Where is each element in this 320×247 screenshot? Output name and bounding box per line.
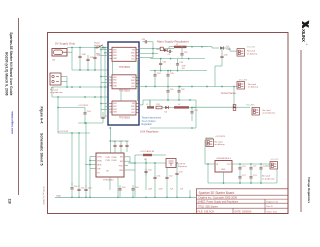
label LM1086	[217, 158, 232, 160]
svg-text:+VCC3V3: +VCC3V3	[78, 105, 89, 107]
svg-text:No Load: No Load	[248, 84, 257, 86]
svg-text:118: 118	[8, 199, 12, 204]
svg-text:on delivery: on delivery	[248, 86, 259, 89]
capacitor C46	[113, 141, 118, 153]
svg-text:+VCC3V3: +VCC3V3	[215, 136, 226, 138]
svg-text:PVIN: PVIN	[97, 160, 102, 162]
wire lm out	[232, 163, 270, 165]
capacitor C35	[166, 70, 174, 87]
svg-text:+VCC1V8: +VCC1V8	[58, 131, 69, 133]
svg-text:VCC-1V2: VCC-1V2	[271, 159, 279, 161]
svg-text:RUN: RUN	[97, 164, 102, 166]
svg-text:PGD: PGD	[119, 166, 124, 168]
net label +VCC3V3 right	[205, 136, 226, 138]
connector JT2	[237, 82, 245, 90]
svg-text:J20: J20	[52, 60, 55, 62]
svg-text:Supercap: Supercap	[178, 165, 188, 168]
svg-text:C9: C9	[168, 54, 170, 56]
capacitor C71	[249, 165, 257, 183]
label no-load JT1	[247, 51, 258, 56]
wire lm gnd	[223, 172, 225, 183]
wire sense row	[191, 106, 233, 108]
svg-text:EN1: EN1	[113, 49, 117, 51]
capacitor C34	[153, 70, 161, 87]
svg-text:TPS75003: TPS75003	[119, 117, 131, 119]
capacitor C45	[101, 112, 109, 123]
svg-text:D4: D4	[165, 112, 167, 114]
margin note (rotated tiny text)	[42, 186, 44, 205]
svg-text:PVIN: PVIN	[106, 160, 111, 162]
net label VREF	[246, 104, 255, 107]
capacitor C32	[159, 59, 167, 71]
svg-text:Figure A-4:: Figure A-4:	[40, 107, 44, 125]
svg-text:SW2: SW2	[131, 106, 135, 108]
wire L1 row	[153, 46, 207, 49]
figure caption: Figure A-4 (rotated)	[40, 107, 44, 125]
wire stub	[71, 53, 73, 71]
wire aux right drop	[150, 100, 196, 129]
footer link www.xilinx.com (rotated)	[10, 111, 14, 135]
capacitor C48	[109, 140, 129, 152]
regulator IC1 TPS75003	[110, 47, 139, 69]
inductor L1	[174, 44, 187, 48]
svg-text:XILINX: XILINX	[301, 29, 306, 42]
diode D5	[163, 49, 167, 52]
wire u8 to supercap	[130, 162, 135, 164]
svg-text:Spartan-3E Starter Kit Board U: Spartan-3E Starter Kit Board User Guide	[9, 32, 13, 95]
label noload left	[50, 89, 63, 94]
capacitor C40	[93, 48, 101, 62]
capacitor C62	[84, 185, 92, 197]
svg-text:VCC-3V3: VCC-3V3	[239, 79, 247, 81]
footer text: document title (rotated)	[9, 32, 13, 95]
svg-text:FB2: FB2	[132, 109, 135, 111]
capacitor C9 horizontal	[167, 50, 172, 56]
net label VCC-AUX	[140, 150, 154, 153]
footer rule (rotated)	[18, 18, 20, 195]
svg-text:EN1: EN1	[113, 103, 117, 105]
capacitor C33	[176, 59, 184, 71]
title block	[196, 189, 288, 214]
wire u8 bottom	[110, 177, 118, 197]
regulator IC3 TPS75003	[110, 101, 139, 119]
wire left feeder	[52, 87, 108, 98]
wire stub jack	[67, 48, 72, 53]
wire IC1 to IC2	[112, 61, 114, 75]
svg-text:LM1086CM-3.3: LM1086CM-3.3	[217, 158, 232, 160]
svg-text:L1: L1	[176, 44, 178, 46]
capacitor value labels gnd row	[148, 189, 184, 191]
figure caption: Schematic Sheet 5 (rotated)	[40, 133, 44, 166]
switch SW1	[95, 45, 105, 56]
svg-text:AUX Regulators: AUX Regulators	[140, 130, 159, 134]
svg-text:TITLE: S3E Starter: TITLE: S3E Starter	[198, 205, 218, 208]
svg-text:VCC-AUX: VCC-AUX	[246, 104, 255, 107]
svg-text:on production: on production	[263, 112, 276, 115]
svg-text:SW1: SW1	[113, 86, 117, 88]
svg-text:No Load: No Load	[263, 110, 272, 112]
svg-text:No Load: No Load	[262, 176, 271, 178]
chapter title: Voltage Regulators (rotated)	[307, 177, 311, 204]
svg-text:SW: SW	[120, 161, 123, 163]
wire drop to C60	[71, 133, 73, 185]
power jack J20	[52, 49, 67, 57]
resistor R20	[156, 47, 163, 51]
svg-text:L2: L2	[146, 104, 148, 106]
svg-text:LDO: LDO	[131, 112, 135, 114]
diode D2	[220, 46, 231, 51]
label GND	[56, 196, 61, 198]
wire aux stub left	[147, 100, 150, 108]
svg-text:FB2: FB2	[132, 56, 135, 58]
wire IC2 to IC3	[120, 88, 122, 101]
capacitor C72	[259, 165, 267, 183]
wire drops to gnd	[135, 184, 191, 198]
capacitor C53	[175, 162, 183, 190]
svg-text:R21: R21	[157, 104, 160, 106]
regulator IC U9 LM1086	[215, 161, 232, 173]
svg-text:UG230 (v1.0) March 9, 2006: UG230 (v1.0) March 9, 2006	[4, 52, 8, 96]
annotation text Texas Instruments	[142, 117, 162, 126]
svg-text:5V Supply Only: 5V Supply Only	[55, 41, 75, 45]
supercap box J30	[166, 159, 176, 168]
wire aux top rail	[150, 99, 196, 101]
svg-text:on production: on production	[50, 91, 63, 94]
svg-text:C30: C30	[142, 39, 145, 41]
svg-text:No Load: No Load	[215, 142, 224, 144]
page number 118 (rotated)	[8, 199, 12, 204]
wire drop to C62	[85, 122, 87, 187]
label 5V Supply Only	[55, 41, 75, 45]
wire c30 link	[151, 42, 153, 58]
label c33 values	[182, 66, 187, 71]
capacitor C74	[249, 174, 257, 180]
wire aux drop	[149, 100, 151, 108]
wire battery to rail	[52, 77, 108, 88]
annotation rectangle (navy) around regulators	[108, 42, 139, 125]
battery connector JP1	[50, 73, 61, 90]
wire feed into U8 top	[109, 127, 111, 153]
net label JT4	[271, 159, 279, 161]
wire mid rail 70	[150, 70, 207, 72]
svg-text:Digilent Inc. Copyright 2005-: Digilent Inc. Copyright 2005-2006	[199, 195, 238, 199]
svg-text:SW2: SW2	[131, 53, 135, 55]
svg-text:Power: Power	[94, 42, 100, 45]
wire GND rail	[55, 196, 196, 198]
wire ic3 to aux	[139, 100, 151, 105]
connector JT4 output	[270, 162, 278, 170]
wire to JT1	[224, 48, 238, 51]
capacitor C43	[190, 107, 198, 121]
capacitor C38	[78, 48, 86, 61]
svg-text:SW: SW	[120, 157, 123, 159]
svg-text:SVIN: SVIN	[97, 156, 102, 158]
capacitor C51	[153, 163, 161, 190]
svg-text:SHEET: Power Supply and Regula: SHEET: Power Supply and Regulators	[198, 201, 239, 204]
label Current Sense	[221, 92, 237, 95]
net label +VCC1V8	[58, 131, 90, 134]
svg-text:Voltage Regulators: Voltage Regulators	[307, 177, 311, 204]
junction sense	[233, 106, 235, 108]
capacitor C50	[144, 169, 152, 175]
regulator IC U8 LTC3412	[96, 153, 124, 181]
svg-text:+VCC-AUX-IN: +VCC-AUX-IN	[140, 150, 154, 153]
connector JT1	[237, 49, 245, 57]
Xilinx logo (rotated)	[301, 20, 309, 45]
wire u8 left pins	[85, 157, 96, 199]
svg-text:Spartan 3E Starter Board: Spartan 3E Starter Board	[199, 191, 235, 195]
svg-text:EN3: EN3	[113, 83, 117, 85]
capacitor C70	[238, 165, 246, 183]
wire inner right	[137, 60, 139, 101]
svg-text:PGND: PGND	[112, 160, 118, 162]
connector J17 (bottom-left of right section)	[206, 139, 226, 147]
svg-text:EN2: EN2	[113, 80, 117, 82]
net label VCC-5V0	[247, 46, 255, 48]
svg-text:Rev: B: Rev: B	[267, 206, 274, 208]
connector JT3	[252, 108, 260, 116]
wire lm in	[205, 140, 215, 183]
svg-text:UG230_ap_05_030606: UG230_ap_05_030606	[42, 186, 44, 205]
svg-text:TPS75003: TPS75003	[119, 67, 131, 69]
jumper JP2 pads	[233, 105, 250, 111]
wire left drop	[57, 96, 59, 133]
wire 5V input rail	[67, 47, 108, 49]
svg-text:SW1: SW1	[113, 58, 117, 60]
wire supercap row	[128, 162, 166, 164]
resistor R21	[156, 104, 162, 109]
wire sense drop	[233, 87, 235, 108]
svg-text:on delivery: on delivery	[215, 143, 226, 146]
wire c44 gnd	[78, 122, 103, 124]
capacitor C64	[131, 185, 139, 197]
svg-text:LDO: LDO	[131, 59, 135, 61]
label no-load JT2	[248, 84, 259, 89]
svg-text:www.xilinx.com: www.xilinx.com	[10, 111, 14, 135]
svg-text:EN3: EN3	[113, 109, 117, 111]
svg-text:SW2: SW2	[131, 80, 135, 82]
label Power Switch	[94, 42, 101, 48]
wire rail right of annotation	[139, 86, 238, 88]
capacitor C41	[166, 87, 174, 101]
svg-text:on delivery: on delivery	[247, 52, 258, 55]
diode D4	[162, 106, 174, 114]
svg-text:DATE: 03/06/06: DATE: 03/06/06	[235, 211, 253, 214]
wire bottom right rail	[208, 166, 277, 184]
svg-text:VCC-5V0: VCC-5V0	[247, 46, 255, 48]
wire IC1 pin stubs right	[139, 48, 159, 58]
label J20	[52, 60, 55, 62]
wire l4 drop	[135, 155, 146, 190]
svg-text:Sheet: 5/14: Sheet: 5/14	[267, 211, 278, 214]
svg-text:PGND: PGND	[112, 157, 118, 159]
wire segment mid	[72, 69, 108, 71]
svg-text:PVIN: PVIN	[106, 157, 111, 159]
capacitor C60	[70, 183, 78, 197]
svg-text:LDO: LDO	[131, 86, 135, 88]
wire bus second vertical	[104, 47, 109, 118]
capacitor C52	[165, 168, 173, 191]
svg-text:FB2: FB2	[132, 83, 135, 85]
label no-load JT4	[262, 176, 275, 181]
svg-text:Schematic Sheet 5: Schematic Sheet 5	[40, 133, 44, 166]
footer text: doc number/date (rotated)	[4, 52, 8, 96]
svg-text:Main Supply Regulators: Main Supply Regulators	[157, 39, 189, 43]
svg-text:Engineer: GJ: Engineer: GJ	[267, 201, 279, 203]
net label VCC-3V3	[239, 79, 247, 81]
wire u8 right pins	[124, 157, 135, 170]
capacitor C73	[238, 174, 246, 180]
header rule (rotated)	[300, 50, 302, 212]
regulator IC2 TPS75003	[110, 75, 139, 93]
net label +VCC3V3	[57, 105, 88, 108]
svg-text:No Load: No Load	[247, 51, 256, 53]
capacitor C47	[119, 141, 124, 153]
capacitor C63	[118, 185, 126, 197]
svg-text:SW1: SW1	[113, 112, 117, 114]
capacitor C61	[77, 185, 85, 197]
inductor L3	[174, 104, 196, 109]
capacitor C31	[180, 46, 188, 59]
svg-text:on production: on production	[262, 177, 275, 180]
svg-text:Regulator: Regulator	[142, 123, 153, 126]
inductor L2	[146, 104, 154, 109]
label no-load JT3	[263, 110, 276, 115]
schematic frame border	[48, 33, 289, 214]
svg-text:L3: L3	[178, 104, 180, 106]
svg-text:FILE: S3E.SCH: FILE: S3E.SCH	[198, 211, 215, 214]
label AUX Regulators	[140, 130, 159, 134]
svg-text:TPS54350: TPS54350	[103, 179, 114, 181]
wire drop to C61	[78, 133, 80, 187]
capacitor C30	[142, 39, 152, 43]
wire mid rail 58	[150, 58, 205, 60]
capacitor C39	[86, 55, 94, 63]
wire caps to rail	[80, 60, 95, 70]
svg-text:GND: GND	[221, 169, 226, 171]
svg-text:EN1: EN1	[113, 77, 117, 79]
capacitor C36	[215, 47, 228, 86]
label Main Supply Regulators	[157, 39, 189, 43]
svg-text:R20: R20	[156, 49, 159, 51]
svg-text:EN2: EN2	[113, 52, 117, 54]
label supercap	[178, 163, 188, 168]
svg-text:0.5F 5V: 0.5F 5V	[178, 163, 186, 165]
inductor L4	[135, 154, 166, 161]
wire bus left of IC1	[100, 48, 109, 119]
wire vcc5 branch	[207, 47, 219, 48]
svg-text:EN2: EN2	[113, 106, 117, 108]
svg-text:No Load: No Load	[50, 89, 59, 91]
capacitor C44	[83, 108, 91, 124]
svg-text:EN3: EN3	[113, 55, 117, 57]
capacitor C42	[177, 86, 185, 100]
